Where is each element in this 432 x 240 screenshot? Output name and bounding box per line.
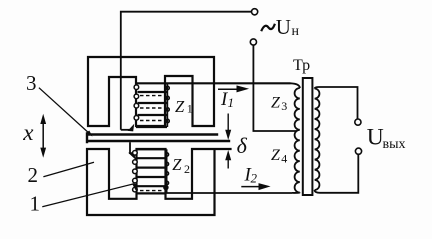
svg-text:4: 4 (281, 151, 287, 165)
svg-text:1: 1 (187, 102, 193, 116)
svg-text:вых: вых (383, 137, 406, 152)
svg-text:2: 2 (184, 162, 190, 176)
svg-text:x: x (22, 120, 34, 145)
svg-text:1: 1 (228, 95, 235, 110)
svg-text:U: U (276, 15, 291, 39)
svg-text:н: н (292, 24, 300, 39)
svg-text:Z: Z (172, 155, 182, 174)
svg-text:U: U (367, 125, 384, 151)
svg-text:Z: Z (271, 147, 281, 164)
svg-text:Тр: Тр (293, 57, 310, 74)
svg-text:2: 2 (28, 163, 39, 187)
svg-text:Z: Z (271, 95, 281, 112)
svg-text:1: 1 (30, 192, 41, 216)
svg-text:Z: Z (175, 97, 185, 116)
svg-text:2: 2 (251, 171, 258, 186)
svg-text:3: 3 (26, 71, 37, 95)
svg-text:3: 3 (281, 99, 287, 113)
svg-text:δ: δ (237, 133, 248, 158)
